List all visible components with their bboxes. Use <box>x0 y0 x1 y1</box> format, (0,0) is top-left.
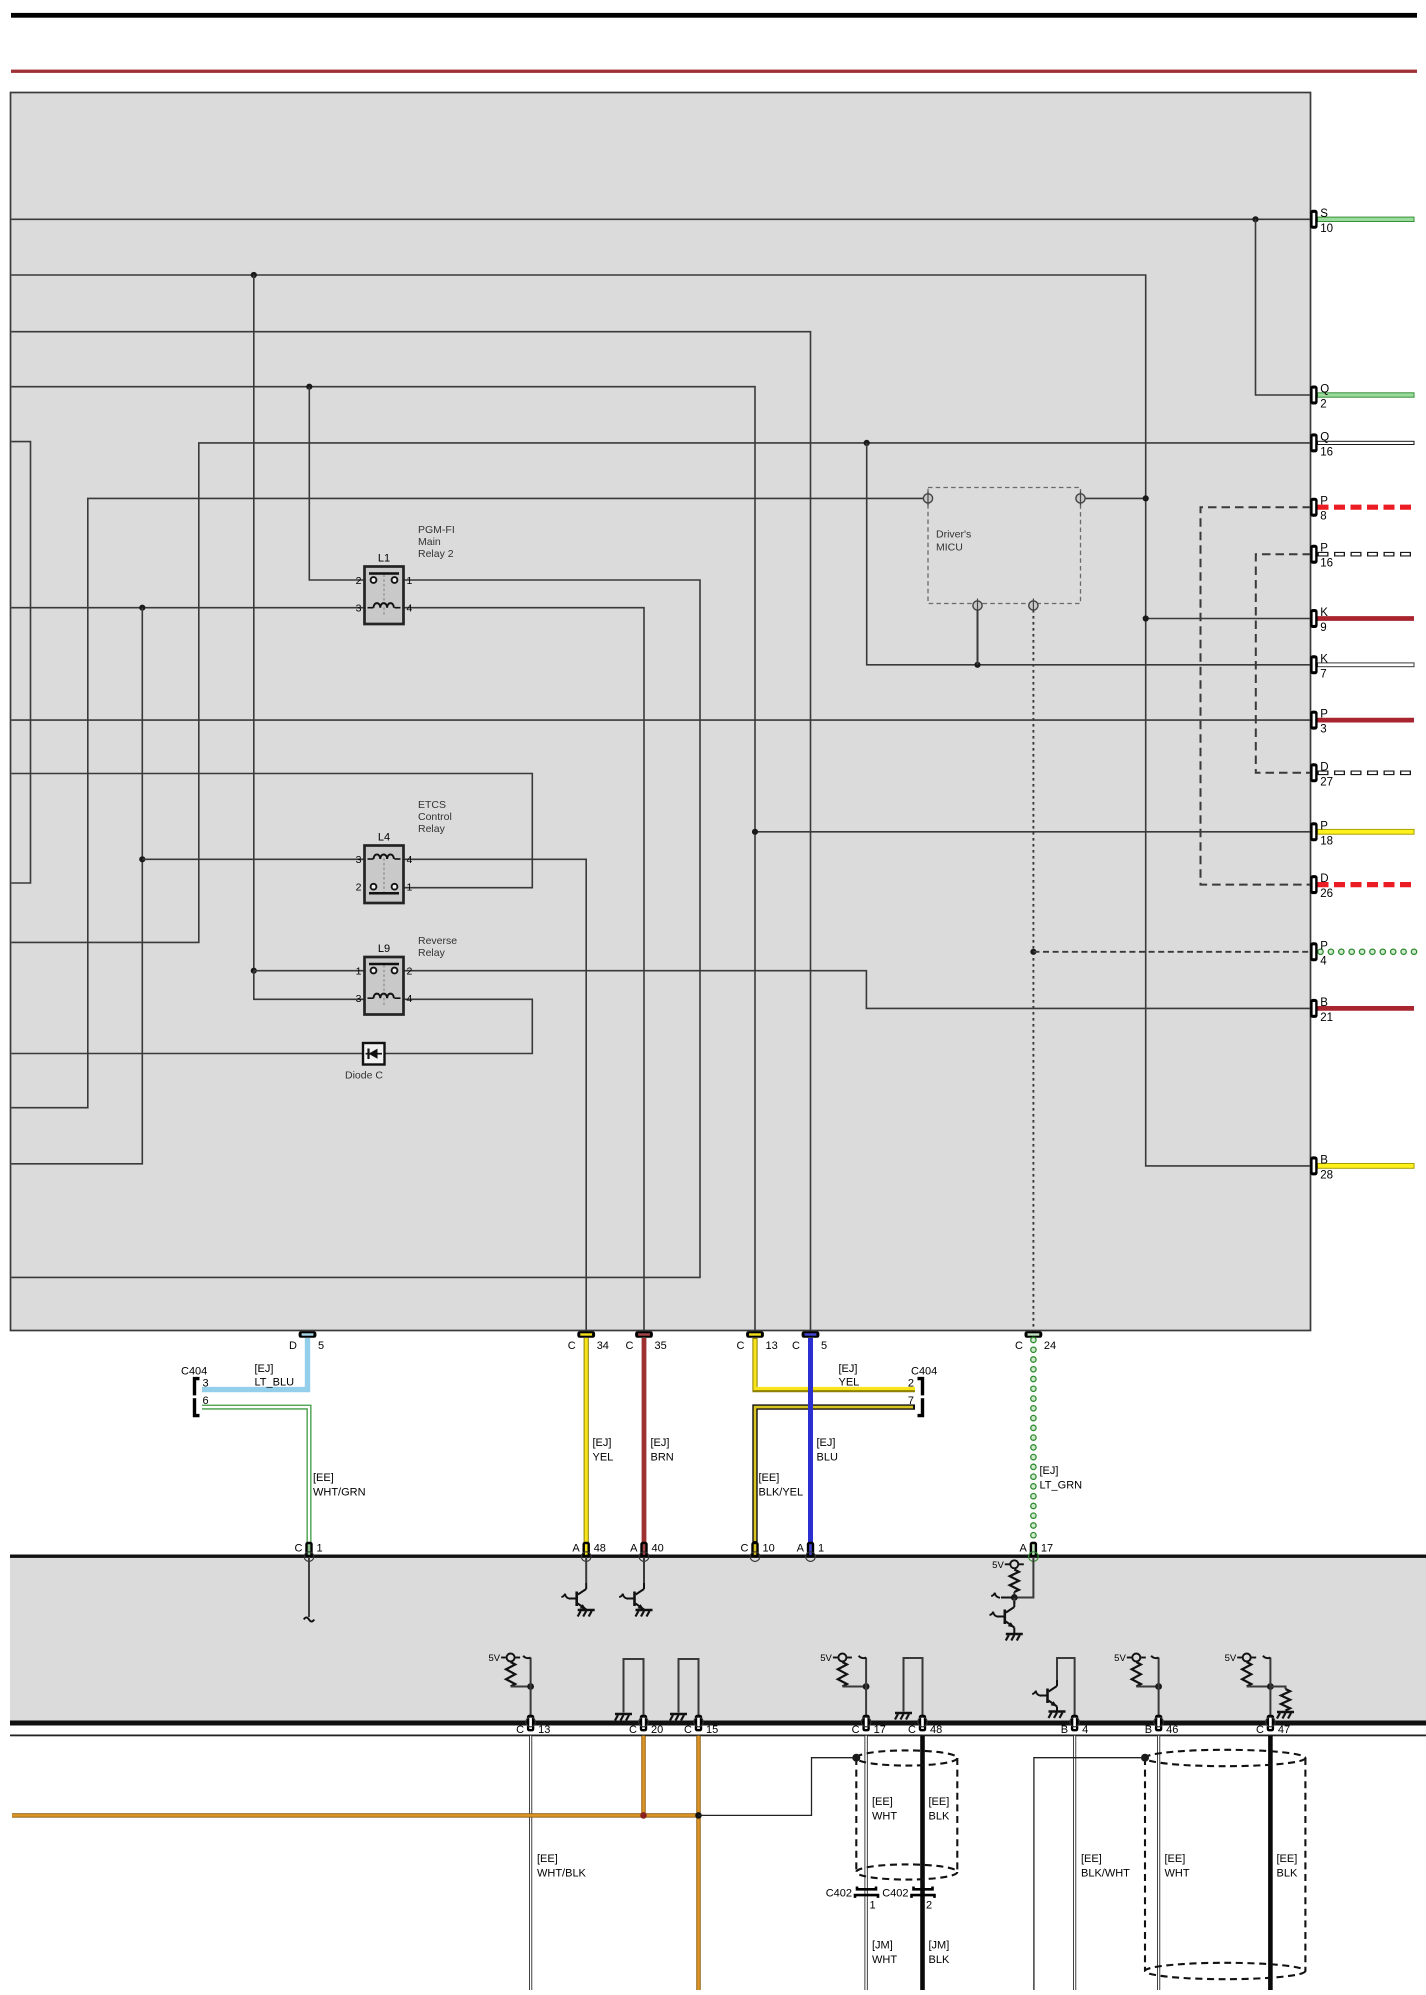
relay L4 ETCS Control Relay <box>356 799 452 903</box>
wire P16 external <box>1318 552 1415 557</box>
svg-text:10: 10 <box>763 1543 775 1555</box>
label EJ YEL left <box>593 1437 614 1464</box>
inner dashed shield bracket P16-D27 <box>1256 554 1311 773</box>
lower band inner edge line <box>10 1735 1426 1737</box>
wire L1 pin3 feed <box>11 607 364 609</box>
svg-text:BLK/YEL: BLK/YEL <box>759 1487 804 1499</box>
wire P8 external <box>1318 505 1415 510</box>
pin C 20 band-bottom <box>629 1715 663 1736</box>
svg-text:7: 7 <box>1320 668 1326 680</box>
pin B 46 band-bottom <box>1145 1715 1179 1736</box>
pullup 5V C17 <box>820 1653 869 1721</box>
label EE BLK <box>929 1796 950 1823</box>
wire drop to relay L1 pin 2 <box>309 387 364 580</box>
svg-text:Q: Q <box>1320 431 1329 443</box>
wire Q16 net <box>11 443 1311 943</box>
wire WHT/BLK below C13 <box>529 1736 532 1990</box>
svg-text:46: 46 <box>1166 1724 1178 1736</box>
junction K7 MICU drain <box>974 662 980 668</box>
junction shield 2 <box>1141 1754 1149 1762</box>
svg-text:[EJ]: [EJ] <box>1040 1465 1059 1477</box>
svg-text:4: 4 <box>407 854 413 866</box>
junction MICU right on V1145 <box>1143 495 1149 501</box>
relay L9 Reverse Relay <box>356 935 458 1015</box>
wire vertical 142 <box>11 608 142 1164</box>
wire LT_GRN C24 to A17 <box>1031 1337 1036 1547</box>
wire P18 net <box>755 831 1311 833</box>
junction ORN C15 <box>695 1812 702 1819</box>
svg-text:PGM-FI: PGM-FI <box>418 524 455 536</box>
label EJ BRN <box>651 1437 674 1464</box>
pin C 15 band-bottom <box>684 1715 718 1736</box>
label EJ YEL right <box>839 1363 860 1389</box>
svg-text:C: C <box>568 1340 576 1352</box>
page red divider line <box>11 70 1417 73</box>
svg-text:40: 40 <box>652 1543 664 1555</box>
svg-text:16: 16 <box>1320 446 1333 458</box>
svg-text:26: 26 <box>1320 888 1333 900</box>
wire shield jumper left <box>699 1758 854 1816</box>
wire L9 pin2 to pin B21 <box>404 971 1312 1009</box>
svg-text:C: C <box>852 1724 860 1736</box>
MICU pin bottom-right <box>1029 599 1038 613</box>
label EE BLK right <box>1277 1853 1298 1880</box>
wire L9 pin3 feed <box>254 971 365 1000</box>
svg-text:[EE]: [EE] <box>929 1796 950 1808</box>
junction P18 on V755 <box>752 829 758 835</box>
pin C 13 band-bottom <box>516 1715 550 1736</box>
svg-text:[EJ]: [EJ] <box>839 1363 858 1375</box>
dotted wire MICU to pin C24 <box>1032 610 1034 1333</box>
svg-text:Relay: Relay <box>418 823 446 835</box>
pin C 35 bottom <box>626 1331 667 1352</box>
svg-text:A: A <box>797 1543 805 1555</box>
svg-text:48: 48 <box>594 1543 606 1555</box>
svg-text:K: K <box>1320 607 1328 619</box>
pin P 18 <box>1310 820 1333 847</box>
pullup 5V B46 <box>1114 1653 1162 1721</box>
svg-text:5V: 5V <box>488 1653 500 1664</box>
svg-text:[EJ]: [EJ] <box>817 1437 836 1449</box>
wire L4 pin4 to pin C34 <box>404 859 587 1333</box>
svg-text:4: 4 <box>407 993 413 1005</box>
label EE BLK/YEL <box>759 1472 804 1499</box>
transistor A40 <box>619 1557 652 1617</box>
shield cylinder 2 <box>1145 1750 1305 1979</box>
svg-text:[EE]: [EE] <box>759 1472 780 1484</box>
svg-text:C: C <box>741 1543 749 1555</box>
svg-text:Diode C: Diode C <box>345 1070 383 1082</box>
wire ORN below C15 <box>696 1736 700 1990</box>
svg-text:4: 4 <box>1320 955 1327 967</box>
svg-text:WHT/BLK: WHT/BLK <box>537 1868 587 1880</box>
pin B 21 <box>1310 997 1333 1024</box>
svg-text:10: 10 <box>1320 223 1333 235</box>
pin C 17 band-bottom <box>852 1715 886 1736</box>
svg-text:2: 2 <box>1320 399 1326 411</box>
pullup and transistor A17 <box>990 1557 1034 1641</box>
svg-text:[EE]: [EE] <box>1277 1853 1298 1865</box>
pin P 4 <box>1310 940 1328 967</box>
svg-text:S: S <box>1320 208 1328 220</box>
pin P 16 <box>1310 543 1333 570</box>
wire S10 external <box>1318 217 1415 221</box>
junction L1 pin3 vertical 142 <box>139 605 145 611</box>
svg-text:[EE]: [EE] <box>872 1796 893 1808</box>
MICU pin top-right <box>1076 491 1085 505</box>
svg-text:1: 1 <box>407 882 413 894</box>
outer dashed shield bracket P8-D26 <box>1201 507 1312 884</box>
svg-text:BRN: BRN <box>651 1452 674 1464</box>
svg-text:35: 35 <box>655 1340 667 1352</box>
label EE WHT right <box>1165 1853 1190 1880</box>
svg-text:13: 13 <box>766 1340 778 1352</box>
svg-text:P: P <box>1320 820 1328 832</box>
svg-text:P: P <box>1320 709 1328 721</box>
wire L9 pin1 feed <box>254 970 365 972</box>
svg-text:WHT: WHT <box>872 1811 897 1823</box>
wire K7 external <box>1318 663 1415 667</box>
wire L1 pin4 to pin C35 <box>404 608 645 1333</box>
pin C 10 band-top <box>741 1542 775 1562</box>
wire BRN C35 to A40 <box>642 1338 647 1543</box>
svg-text:Main: Main <box>418 536 441 548</box>
wire L9 pin4 to diode <box>385 999 533 1053</box>
svg-text:[EE]: [EE] <box>313 1472 334 1484</box>
pin A 40 band-top <box>630 1542 664 1562</box>
junction H1/Q2 drop <box>1252 216 1258 222</box>
svg-text:WHT: WHT <box>1165 1868 1190 1880</box>
svg-text:27: 27 <box>1320 776 1333 788</box>
pin C 5 bottom <box>792 1331 827 1352</box>
svg-text:1: 1 <box>870 1900 876 1912</box>
svg-text:YEL: YEL <box>839 1377 860 1389</box>
svg-text:C: C <box>516 1724 524 1736</box>
ground loop C48 <box>895 1658 923 1721</box>
svg-text:Driver's: Driver's <box>936 529 971 541</box>
pin D 27 <box>1310 761 1333 788</box>
svg-text:YEL: YEL <box>593 1452 614 1464</box>
svg-text:18: 18 <box>1320 835 1333 847</box>
svg-text:C: C <box>626 1340 634 1352</box>
label EJ LT_BLU <box>255 1363 295 1389</box>
svg-text:9: 9 <box>1320 622 1326 634</box>
svg-text:ETCS: ETCS <box>418 799 446 811</box>
dashed wire branch to pin P4 <box>1033 951 1311 953</box>
wire BLU C5 to A1 <box>808 1338 813 1543</box>
svg-text:A: A <box>630 1543 638 1555</box>
relay L1 PGM-FI Main Relay 2 <box>356 524 455 624</box>
pin Q 2 <box>1310 384 1329 411</box>
svg-text:[EJ]: [EJ] <box>593 1437 612 1449</box>
pin P 8 <box>1310 496 1328 523</box>
svg-text:C402: C402 <box>882 1888 908 1900</box>
wire B21 external <box>1318 1006 1415 1011</box>
label JM BLK <box>929 1940 950 1967</box>
svg-text:47: 47 <box>1278 1724 1290 1736</box>
svg-text:4: 4 <box>407 603 413 615</box>
svg-text:B: B <box>1145 1724 1152 1736</box>
wire WHT below B46 <box>1157 1736 1160 1990</box>
svg-text:2: 2 <box>926 1900 932 1912</box>
transistor A48 <box>561 1557 594 1617</box>
svg-text:1: 1 <box>818 1543 824 1555</box>
pin C 47 band-bottom <box>1256 1715 1290 1736</box>
junction H2 vertical 253 <box>251 272 257 278</box>
connector C404 right <box>908 1366 937 1416</box>
wire YEL C13 to C404-2 <box>755 1338 915 1390</box>
svg-text:48: 48 <box>930 1724 942 1736</box>
label EE BLK/WHT <box>1081 1853 1130 1880</box>
wire BLK/YEL C404-7 to C10 <box>755 1407 915 1543</box>
svg-text:21: 21 <box>1320 1012 1333 1024</box>
wire L4 pin1 return to edge <box>11 774 532 888</box>
wire P3 net <box>11 719 1311 721</box>
wire MICU bottom-left drain <box>977 610 979 665</box>
svg-text:D: D <box>1320 873 1328 885</box>
wire H4 to pin C13 <box>11 387 755 1333</box>
wire H2 to vertical 1145 <box>11 275 1311 1166</box>
junction L9 pin1 feed <box>251 968 257 974</box>
svg-text:BLU: BLU <box>817 1452 838 1464</box>
svg-text:[EJ]: [EJ] <box>255 1363 274 1375</box>
pin C 1 band-top <box>295 1542 323 1562</box>
wire P4 external <box>1318 949 1417 954</box>
svg-text:2: 2 <box>908 1378 914 1390</box>
wire D26 external <box>1318 882 1415 887</box>
wire K9 branch <box>1146 618 1311 620</box>
wire K7 branch <box>867 443 1311 665</box>
pin C 13 bottom <box>737 1331 778 1352</box>
wire Q16 external <box>1318 441 1415 444</box>
wire stub loop left edge <box>11 442 30 883</box>
wire BLK below C47 <box>1268 1736 1273 1990</box>
svg-text:[EE]: [EE] <box>1081 1853 1102 1865</box>
svg-text:[JM]: [JM] <box>872 1940 893 1952</box>
svg-text:A: A <box>572 1543 580 1555</box>
wire WHT below C17 <box>864 1736 867 1990</box>
junction H4 vertical 309 <box>306 384 312 390</box>
svg-text:17: 17 <box>874 1724 886 1736</box>
pin A 17 band-top <box>1020 1542 1054 1562</box>
svg-text:BLK: BLK <box>929 1954 950 1966</box>
svg-text:Q: Q <box>1320 384 1329 396</box>
pin D 26 <box>1310 873 1333 900</box>
svg-text:C404: C404 <box>911 1366 937 1378</box>
svg-text:P: P <box>1320 543 1328 555</box>
svg-text:LT_BLU: LT_BLU <box>255 1377 295 1389</box>
wire drop to pin Q2 <box>1256 219 1312 395</box>
svg-text:C: C <box>1256 1724 1264 1736</box>
pin P 3 <box>1310 709 1328 736</box>
page top black bar <box>11 13 1417 18</box>
junction L4 pin3 branch <box>139 856 145 862</box>
upper module outline box <box>11 93 1311 1331</box>
svg-text:24: 24 <box>1044 1340 1056 1352</box>
wire B28 external <box>1318 1164 1415 1169</box>
pullup 5V C13 <box>488 1653 534 1721</box>
wire BLK below C48 <box>920 1736 925 1990</box>
pin K 9 <box>1310 607 1328 634</box>
svg-text:3: 3 <box>356 603 362 615</box>
junction shield 1 <box>852 1754 860 1762</box>
pin C 24 bottom <box>1015 1331 1056 1352</box>
svg-text:[EE]: [EE] <box>1165 1853 1186 1865</box>
MICU pin bottom-left <box>973 599 982 613</box>
wire ORN below C20 <box>641 1736 645 1816</box>
svg-text:1: 1 <box>356 965 362 977</box>
svg-text:B: B <box>1061 1724 1068 1736</box>
svg-text:Control: Control <box>418 811 452 823</box>
wire C1 stub <box>304 1557 314 1622</box>
svg-text:B: B <box>1320 997 1328 1009</box>
pin S 10 <box>1310 208 1333 235</box>
svg-text:L1: L1 <box>378 553 390 565</box>
svg-text:5V: 5V <box>1114 1653 1126 1664</box>
svg-text:2: 2 <box>356 882 362 894</box>
svg-text:WHT: WHT <box>872 1954 897 1966</box>
svg-text:C: C <box>295 1543 303 1555</box>
svg-text:3: 3 <box>356 993 362 1005</box>
junction K9 on V1145 <box>1143 615 1149 621</box>
svg-text:[EJ]: [EJ] <box>651 1437 670 1449</box>
svg-text:C: C <box>908 1724 916 1736</box>
svg-text:17: 17 <box>1041 1543 1053 1555</box>
svg-text:B: B <box>1320 1154 1328 1166</box>
svg-text:BLK: BLK <box>929 1811 950 1823</box>
svg-text:P: P <box>1320 496 1328 508</box>
svg-text:C: C <box>737 1340 745 1352</box>
svg-text:D: D <box>1320 761 1328 773</box>
pin Q 16 <box>1310 431 1333 458</box>
pin D 5 bottom <box>289 1331 324 1352</box>
wire K9 external <box>1318 616 1415 621</box>
svg-text:C: C <box>629 1724 637 1736</box>
svg-text:4: 4 <box>1082 1724 1088 1736</box>
svg-text:34: 34 <box>597 1340 609 1352</box>
wire H1 to pin S10 <box>11 218 1311 220</box>
junction dotted P4 branch <box>1030 949 1036 955</box>
svg-text:20: 20 <box>651 1724 663 1736</box>
svg-text:15: 15 <box>706 1724 718 1736</box>
pullup and resistor C47 <box>1225 1653 1294 1721</box>
svg-text:2: 2 <box>407 965 413 977</box>
label JM WHT <box>872 1940 897 1967</box>
connector C402-1 <box>826 1887 878 1912</box>
svg-text:C402: C402 <box>826 1888 852 1900</box>
svg-text:5V: 5V <box>1225 1653 1237 1664</box>
svg-text:L4: L4 <box>378 832 390 844</box>
wire ORN horizontal <box>12 1813 699 1817</box>
pin B 4 band-bottom <box>1061 1715 1088 1736</box>
connector C402-2 <box>882 1887 934 1912</box>
wire P18 external <box>1318 829 1415 834</box>
wire D27 external <box>1318 770 1415 775</box>
svg-text:BLK/WHT: BLK/WHT <box>1081 1868 1130 1880</box>
MICU pin top-left <box>923 491 932 505</box>
label EJ LT_GRN <box>1040 1465 1083 1492</box>
svg-text:C: C <box>1015 1340 1023 1352</box>
pin K 7 <box>1310 653 1328 680</box>
ground loop C15 <box>670 1659 699 1721</box>
wire shield jumper right <box>1034 1758 1141 1990</box>
svg-text:5: 5 <box>821 1340 827 1352</box>
wire Q2 external <box>1318 393 1415 397</box>
wire L4 pin3 branch <box>142 858 364 860</box>
wire MICU left feed <box>11 498 923 1107</box>
svg-text:5: 5 <box>318 1340 324 1352</box>
svg-text:1: 1 <box>407 575 413 587</box>
pin A 1 band-top <box>797 1542 824 1562</box>
wire MICU right output <box>1085 497 1146 499</box>
pin B 28 <box>1310 1154 1333 1181</box>
wire L1 pin1 loop to edge <box>11 580 700 1277</box>
svg-text:1: 1 <box>317 1543 323 1555</box>
svg-text:P: P <box>1320 940 1328 952</box>
svg-text:16: 16 <box>1320 558 1333 570</box>
lower module band <box>10 1555 1426 1726</box>
label EJ BLU <box>817 1437 838 1464</box>
svg-text:8: 8 <box>1320 511 1326 523</box>
ground loop C20 <box>615 1659 644 1721</box>
svg-text:28: 28 <box>1320 1169 1333 1181</box>
shield cylinder 1 <box>856 1750 957 1879</box>
svg-text:13: 13 <box>538 1724 550 1736</box>
pin C 34 bottom <box>568 1331 609 1352</box>
wire vertical 253 to relay L9 <box>253 275 255 971</box>
pin A 48 band-top <box>572 1542 606 1562</box>
svg-text:5V: 5V <box>992 1560 1004 1571</box>
transistor B4 <box>1032 1658 1074 1721</box>
wire H3 to pin C5 <box>11 332 810 1333</box>
svg-text:3: 3 <box>203 1378 209 1390</box>
svg-text:3: 3 <box>1320 724 1326 736</box>
svg-text:[JM]: [JM] <box>929 1940 950 1952</box>
wire diode anode to edge <box>11 1053 363 1055</box>
wire WHT/GRN C404-6 to C1 <box>202 1407 309 1543</box>
svg-text:[EE]: [EE] <box>537 1853 558 1865</box>
svg-text:C: C <box>684 1724 692 1736</box>
label EE WHT <box>872 1796 897 1823</box>
svg-text:D: D <box>289 1340 297 1352</box>
svg-text:BLK: BLK <box>1277 1868 1298 1880</box>
svg-text:A: A <box>1020 1543 1028 1555</box>
connector C404 left <box>181 1366 209 1416</box>
svg-text:C404: C404 <box>181 1366 207 1378</box>
svg-text:MICU: MICU <box>936 542 963 554</box>
svg-text:L9: L9 <box>378 943 390 955</box>
svg-text:5V: 5V <box>820 1653 832 1664</box>
svg-text:WHT/GRN: WHT/GRN <box>313 1487 366 1499</box>
Driver's MICU dashed box <box>928 488 1081 604</box>
label EE WHT/GRN <box>313 1472 366 1499</box>
wire BLK/WHT below B4 <box>1073 1736 1076 1990</box>
junction ORN C20 <box>640 1812 647 1819</box>
svg-text:3: 3 <box>356 854 362 866</box>
svg-text:C: C <box>792 1340 800 1352</box>
svg-text:Relay: Relay <box>418 947 446 959</box>
wire P3 external <box>1318 718 1415 723</box>
svg-text:LT_GRN: LT_GRN <box>1040 1480 1083 1492</box>
wire LT_BLU D5 to C404-3 <box>202 1338 308 1390</box>
wire YEL C34 to A48 <box>584 1338 589 1543</box>
pin C 48 band-bottom <box>908 1715 942 1736</box>
svg-text:2: 2 <box>356 575 362 587</box>
junction Q16/K7 branch <box>864 440 870 446</box>
label EE WHT/BLK <box>537 1853 587 1880</box>
diode C <box>345 1043 385 1082</box>
svg-text:Relay 2: Relay 2 <box>418 548 454 560</box>
